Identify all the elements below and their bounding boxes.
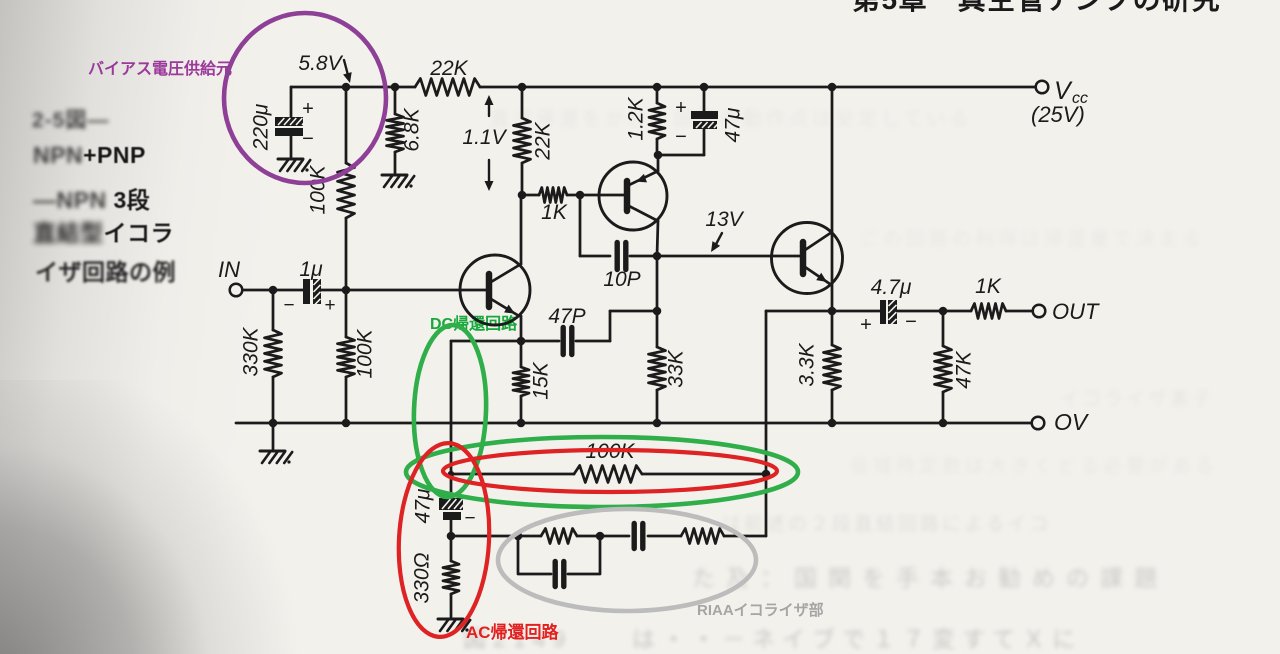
resistor 330K [265,330,282,377]
svg-text:−: − [302,128,314,150]
resistor 1K output [971,304,1006,319]
svg-text:3.3K: 3.3K [796,342,819,386]
label + 220u [302,98,314,120]
svg-text:−: − [675,126,687,148]
svg-text:1.1V: 1.1V [462,126,507,149]
capacitor 4.7u plates [880,298,897,327]
node 330ohm junction [447,532,456,541]
wire 15K bottom lead [520,396,523,423]
wire Q2 collector to 33K [656,256,659,347]
svg-text:+: + [675,97,687,119]
annotation text red [466,618,559,643]
wire 47K bottom lead [942,392,945,423]
annotation green horizontal oval [406,437,798,507]
svg-text:47μ: 47μ [722,107,745,142]
capacitor RIAA C2 [555,562,564,587]
capacitor 47u plates [691,111,726,129]
annotation text green [430,310,517,334]
wire Q1 collector up [520,195,523,264]
wire 1.2K bottom lead [656,139,659,155]
annotation green vertical oval [411,324,489,498]
label 33K [665,349,688,387]
wire 22K vert bottom lead [521,163,524,195]
wire Vcc rail [291,86,1035,89]
svg-text:330Ω: 330Ω [411,552,434,603]
node 6.8K rail [391,83,400,92]
svg-text:−: − [464,508,475,529]
annotation text purple [88,55,232,79]
capacitor 47u feedback plates [439,498,474,520]
terminal Vcc [1036,81,1049,94]
label 100K bias [307,164,330,214]
wire 10P right lead [630,255,657,258]
wire 1.2K top lead [656,87,659,103]
resistor 1K [539,188,567,203]
wire feedback drop [765,311,768,474]
resistor 22K vertical [514,118,531,163]
wire 47u fb bottom lead [450,518,453,536]
node 100K feedback left [448,471,454,477]
wire 13V line [657,255,800,258]
svg-text:100K: 100K [307,164,330,214]
node Q3 emitter [828,307,837,316]
label + 47u [675,97,687,119]
svg-text:OUT: OUT [1052,299,1100,324]
resistor 100K feedback [574,466,642,483]
label 22K top [429,57,468,80]
label 4.7u [871,276,912,299]
label + 1u [324,295,335,316]
transistor Q3 collector [805,232,832,250]
svg-text:47μ: 47μ [412,488,435,523]
node 33K 0V [653,419,662,428]
wire output line [766,310,882,313]
node RIAA mid [596,532,605,541]
svg-text:1μ: 1μ [299,258,323,281]
svg-text:+: + [324,295,335,316]
resistor 330ohm [443,561,459,594]
label OV [1054,409,1090,435]
wire 330K bottom lead [272,377,275,423]
resistor RIAA R1 [541,529,577,544]
label - 4.7u [905,311,917,333]
wire Q2 emitter up [657,155,660,171]
label 1K output [975,275,1002,298]
annotation gray oval [498,509,756,611]
svg-text:IN: IN [218,257,240,282]
capacitor RIAA C1 [634,524,643,549]
resistor 100K input [338,337,355,377]
page shading bottom-left dark corner [0,380,300,654]
node 47P junction [653,307,662,316]
wire RIAA R1 to C1 [577,535,629,538]
node 47K junction [939,307,948,316]
terminal OUT [1033,305,1046,318]
label - 47u feedback [464,508,475,529]
svg-text:33K: 33K [665,349,688,387]
node 330K 0V [269,419,278,428]
node 47K 0V [939,419,948,428]
svg-text:22K: 22K [532,121,555,160]
capacitor 47P [563,328,572,355]
node Q1 emitter [517,337,526,346]
node 100K feedback right [762,470,771,479]
wire RIAA entry [451,535,541,538]
resistor 33K [649,347,666,390]
wire RIAA parallel right [568,536,600,574]
transistor Q3 emitter with arrow [805,267,830,284]
svg-text:1K: 1K [975,275,1002,298]
ground below 6.8K [382,175,414,188]
svg-text:10P: 10P [603,268,640,291]
wire 220u bottom lead [290,136,293,158]
label 330ohm [411,552,434,603]
wire Q2 collector down [657,221,658,256]
node 10P takeoff [576,191,585,200]
label 22K vertical [532,121,555,160]
label 15K [530,361,553,399]
node RIAA left [514,532,523,541]
label 100K input [354,328,377,378]
label - 47u [675,126,687,148]
label 1K [541,201,568,224]
arrow 13V [711,233,722,252]
svg-text:OV: OV [1054,409,1090,435]
wire 330ohm top lead [450,536,453,561]
terminal IN [230,284,243,297]
svg-text:220μ: 220μ [250,103,273,151]
annotation text gray [697,599,824,620]
annotation purple circle [224,13,386,183]
label 1.1V [462,126,507,149]
wire 330K top lead [272,290,275,330]
svg-text:4.7μ: 4.7μ [871,276,912,299]
wire 15K top lead [520,341,523,367]
svg-text:13V: 13V [705,208,744,231]
wire 33K bottom lead [656,390,659,423]
wire Q1 emitter down [520,316,523,341]
svg-text:V: V [1054,77,1073,105]
label OUT [1052,299,1100,324]
ground below 330ohm [438,619,470,632]
svg-text:5.8V: 5.8V [298,52,343,75]
wire input to 1u [243,289,306,292]
caption line 5 [35,253,176,287]
wire Q3 collector to Vcc [831,87,834,311]
svg-text:6.8K: 6.8K [401,107,424,151]
capacitor 1u plates [303,278,321,306]
label 10P [603,268,640,291]
wire 47u bottom lead [658,129,704,155]
node 47u rail [700,83,709,92]
node 15K 0V [517,419,526,428]
svg-text:(25V): (25V) [1031,102,1085,127]
wire 100K input top lead [345,290,348,337]
wire 100K bias top lead [345,87,348,163]
wire 47P right [576,311,657,341]
svg-text:−: − [283,295,294,316]
wire 3.3K top lead [831,311,834,345]
label 3.3K [796,342,819,386]
label 47u [722,107,745,142]
transistor Q1 collector [491,264,521,282]
svg-text:15K: 15K [530,361,553,399]
node 3.3K 0V [828,419,837,428]
caption line 4 [33,214,174,248]
capacitor 220u plates [275,117,308,136]
ground below 220u [278,159,310,172]
wire 10P left lead [580,255,610,258]
transistor Q2 collector [629,206,658,221]
node Q1 collector 1K [518,191,527,200]
annotation red horizontal oval [443,450,777,492]
wire 4.7u to 1K [897,310,971,313]
node input 330K [269,286,278,295]
label 1.2K [625,96,648,140]
transistor Q2 body [599,162,667,230]
wire 100K input bottom lead [345,377,348,423]
wire 22K vert top lead [521,87,524,118]
label 47u feedback [412,488,435,523]
wire 100K fb right lead [642,473,766,476]
resistor 100K bias [338,163,355,218]
label 330K [240,326,263,376]
resistor 15K [513,367,529,396]
node bias rail [342,83,351,92]
label 1u [299,258,323,281]
wire 0V rail [236,422,1031,425]
wire 1K to OUT [1006,310,1032,313]
svg-text:22K: 22K [429,57,468,80]
arrow 5.8V [343,60,352,83]
svg-text:−: − [905,311,917,333]
label 47K [953,350,976,388]
label 6.8K [401,107,424,151]
wire RIAA C1 to R2 [648,535,681,538]
wire feedback left [451,340,521,343]
wire 100K fb left lead [451,473,574,476]
label 100K feedback [585,440,635,463]
terminal 0V [1032,417,1045,430]
header chapter title (clipped at page top) [852,0,1272,14]
wire 10P drop [579,195,582,256]
wire 47K top lead [942,311,945,346]
transistor Q2 emitter with arrow [629,171,658,185]
wire 1K to Q2 base [567,194,624,197]
transistor Q3 body [772,223,843,294]
capacitor 10P [617,243,626,270]
label IN [218,257,240,282]
transistor Q1 emitter [491,299,519,316]
wire ground stub 0V [272,423,275,449]
resistor 47K [935,346,952,392]
node Q2 collector 10P [653,252,662,261]
wire 47u top lead [703,87,706,112]
caption line 1 [32,104,109,134]
arrow 1.1V down [485,160,494,191]
annotation red vertical oval [394,441,494,639]
label - 220u [302,128,314,150]
wire 330ohm bottom lead [450,594,453,618]
label - 1u [283,295,294,316]
resistor 6.8K [387,114,404,152]
wire 100K bias bottom lead [345,218,348,290]
node Q2 emitter 1.2K [654,151,663,160]
wire RIAA parallel branch [518,536,551,574]
wire feedback vertical [450,341,453,500]
arrow 1.1V up [485,95,494,116]
label 220u [250,103,273,151]
wire 6.8K top lead [394,87,397,114]
svg-text:100K: 100K [354,328,377,378]
page shading left gutter [0,0,260,654]
caption line 2 [33,142,146,169]
svg-text:330K: 330K [240,326,263,376]
svg-text:47K: 47K [953,350,976,388]
node 22K rail [518,83,527,92]
node Q3 collector rail [828,83,837,92]
wire RIAA right [724,474,766,536]
node 1.2K rail [653,83,662,92]
wire 1u to Q1 base [321,289,487,292]
svg-text:47P: 47P [548,305,585,328]
transistor Q1 body [460,255,530,325]
label 47P [548,305,585,328]
svg-text:1K: 1K [541,201,568,224]
wire 3.3K bottom lead [831,390,834,423]
svg-text:+: + [302,98,314,120]
wire bias top-left drop [290,87,293,118]
node 100K input 0V [342,419,351,428]
resistor RIAA R2 [681,529,724,544]
resistor 3.3K [824,345,841,390]
svg-text:1.2K: 1.2K [625,96,648,140]
resistor 1.2K [649,103,665,139]
node 1u bias junction [342,286,351,295]
label 13V [705,208,744,231]
wire 22K to 1K [522,194,539,197]
label 5.8V [298,52,343,75]
wire 6.8K bottom lead [394,152,397,174]
label + 4.7u [860,314,872,336]
wire Q1 emitter to 47P [521,340,559,343]
ground below 0V rail [260,451,292,464]
caption line 3 [33,181,150,215]
label Vcc [1031,77,1088,127]
svg-text:+: + [860,314,872,336]
resistor 22K (top rail) [415,79,480,96]
bleed-through text rows [490,104,1020,131]
